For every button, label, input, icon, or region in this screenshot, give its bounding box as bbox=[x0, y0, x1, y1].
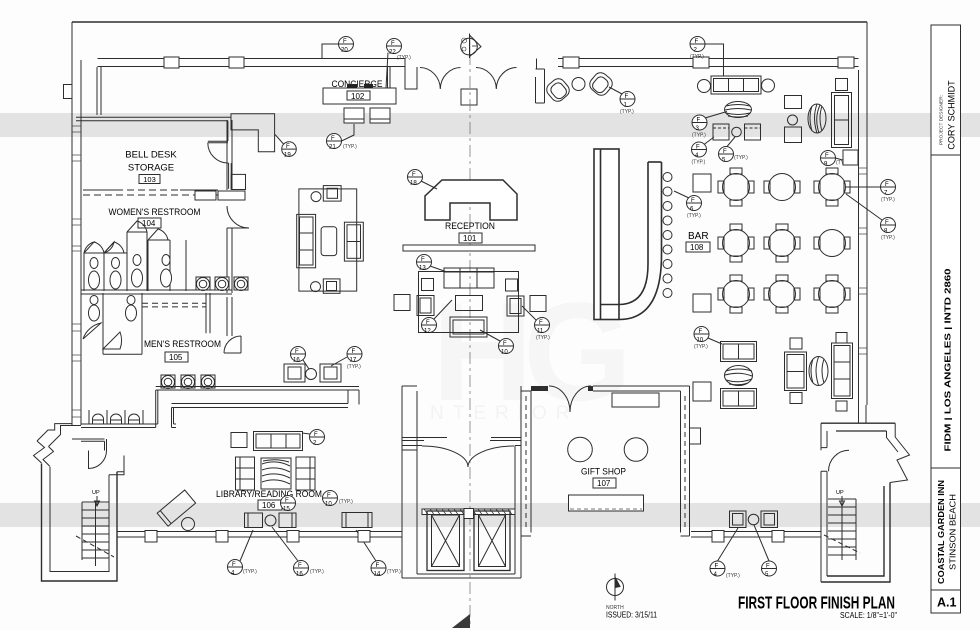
svg-text:(TYP.): (TYP.) bbox=[690, 54, 704, 60]
vestibule center pier bbox=[461, 89, 477, 105]
callout F12 bbox=[422, 300, 453, 335]
svg-text:MEN'S RESTROOM: MEN'S RESTROOM bbox=[144, 339, 221, 350]
svg-text:COASTAL GARDEN INN: COASTAL GARDEN INN bbox=[936, 480, 946, 584]
callout F10 bbox=[480, 330, 514, 356]
svg-text:22: 22 bbox=[389, 49, 396, 56]
svg-text:F: F bbox=[391, 40, 395, 47]
svg-text:12: 12 bbox=[424, 328, 431, 335]
svg-text:F: F bbox=[885, 181, 889, 188]
callout F5 top bbox=[719, 137, 749, 164]
shaft hatch strip bbox=[422, 509, 515, 515]
svg-text:(TYP.): (TYP.) bbox=[692, 160, 706, 166]
elevator 1 bbox=[427, 511, 464, 571]
svg-text:10: 10 bbox=[501, 349, 508, 356]
concierge chairs bbox=[344, 108, 364, 123]
svg-text:A.1: A.1 bbox=[937, 596, 957, 610]
svg-text:F: F bbox=[327, 492, 331, 499]
lobby north inner wall right part bbox=[558, 59, 859, 67]
callout F17 mid bbox=[331, 347, 362, 371]
bar stools bbox=[663, 173, 672, 298]
svg-text:F: F bbox=[298, 562, 302, 569]
lobby door arcs bbox=[422, 446, 514, 467]
svg-text:15: 15 bbox=[283, 506, 290, 513]
top wall with entry bbox=[531, 386, 593, 391]
grey band top bbox=[0, 113, 980, 137]
sinks womens bbox=[196, 277, 248, 291]
svg-text:F: F bbox=[295, 348, 299, 355]
bell desk top wall bbox=[76, 114, 231, 141]
entry door arcs right pair bbox=[476, 68, 517, 90]
left wall pilaster bbox=[64, 85, 73, 99]
concierge number box bbox=[347, 91, 370, 100]
square side tables bar area bbox=[693, 174, 711, 192]
concierge desk bbox=[323, 88, 396, 104]
svg-text:19: 19 bbox=[284, 152, 291, 159]
plant oval 1 bbox=[725, 102, 752, 118]
svg-text:F: F bbox=[412, 171, 416, 178]
north arrow bbox=[607, 574, 624, 601]
svg-text:17: 17 bbox=[350, 357, 357, 364]
svg-text:F: F bbox=[421, 256, 425, 263]
right wall mullion ticks bbox=[859, 168, 868, 354]
svg-text:F: F bbox=[695, 38, 699, 45]
svg-text:102: 102 bbox=[351, 92, 365, 101]
svg-text:20: 20 bbox=[341, 47, 348, 54]
svg-text:(TYP.): (TYP.) bbox=[347, 364, 361, 370]
svg-text:(TYP.): (TYP.) bbox=[536, 335, 550, 341]
sinks mens bbox=[161, 375, 215, 389]
console tables bottom left bbox=[245, 513, 373, 528]
svg-text:BELL DESK: BELL DESK bbox=[125, 150, 177, 161]
callout F16 mid bbox=[291, 347, 310, 370]
svg-text:(TYP.): (TYP.) bbox=[397, 55, 411, 61]
svg-text:(TYP.): (TYP.) bbox=[343, 144, 357, 150]
right console chairs bbox=[730, 511, 778, 528]
storage door stub and leaf bbox=[208, 141, 231, 189]
luggage shelf bbox=[89, 410, 143, 424]
svg-text:NTERIOR: NTERIOR bbox=[430, 403, 579, 424]
svg-text:PROJECT DESIGNER:: PROJECT DESIGNER: bbox=[939, 95, 945, 145]
right section colonnade bbox=[691, 532, 821, 538]
settee top bbox=[698, 76, 775, 94]
callout F3 bbox=[692, 112, 727, 139]
svg-text:BAR: BAR bbox=[688, 231, 709, 242]
center sill box bbox=[464, 509, 474, 519]
callout F18 bbox=[408, 170, 438, 190]
right exterior wall (double) bbox=[859, 22, 868, 405]
mens restroom interior bbox=[83, 293, 142, 354]
callout F1 bbox=[609, 87, 635, 115]
svg-text:101: 101 bbox=[463, 234, 477, 243]
entry door arcs left pair bbox=[420, 68, 461, 90]
cabinet by door bbox=[231, 174, 245, 189]
callout F22 bbox=[386, 39, 411, 89]
svg-text:STORAGE: STORAGE bbox=[128, 163, 174, 174]
mens south wall bbox=[156, 387, 359, 408]
svg-text:WOMEN'S RESTROOM: WOMEN'S RESTROOM bbox=[109, 207, 201, 218]
restroom right wall bbox=[227, 120, 232, 336]
svg-text:(TYP.): (TYP.) bbox=[726, 573, 740, 579]
svg-text:(TYP.): (TYP.) bbox=[243, 569, 257, 575]
svg-text:106: 106 bbox=[262, 501, 276, 510]
entry arcs bbox=[549, 386, 591, 412]
svg-text:105: 105 bbox=[169, 353, 183, 362]
callout F2 bbox=[690, 37, 724, 77]
svg-text:(TYP.): (TYP.) bbox=[687, 213, 701, 219]
protrusion right bbox=[690, 428, 701, 444]
mens door arc bbox=[224, 336, 241, 353]
storage door arc bbox=[208, 143, 229, 163]
svg-text:FIRST FLOOR FINISH PLAN: FIRST FLOOR FINISH PLAN bbox=[738, 593, 895, 613]
svg-text:F: F bbox=[699, 328, 703, 335]
svg-text:ISSUED: 3/15/11: ISSUED: 3/15/11 bbox=[606, 611, 657, 620]
callout F8 bbox=[846, 194, 896, 241]
svg-text:104: 104 bbox=[142, 219, 156, 228]
svg-text:16: 16 bbox=[293, 357, 300, 364]
svg-text:F: F bbox=[426, 319, 430, 326]
left wall mullion ticks bbox=[72, 126, 81, 417]
callout F21 bbox=[327, 124, 358, 151]
svg-text:16: 16 bbox=[296, 571, 303, 578]
callout F7 bbox=[846, 180, 896, 204]
callout F4 top bbox=[692, 137, 715, 166]
svg-text:(TYP.): (TYP.) bbox=[339, 499, 353, 505]
closet casework bbox=[231, 114, 275, 152]
callout F11 bbox=[522, 306, 550, 341]
callouts bottom F4 F16 F14 bbox=[228, 530, 258, 577]
callout F20 bbox=[322, 37, 354, 59]
svg-text:(TYP.): (TYP.) bbox=[734, 155, 748, 161]
svg-text:UP: UP bbox=[836, 490, 844, 496]
svg-text:10: 10 bbox=[325, 501, 332, 508]
cabinets under dashed wall bbox=[195, 191, 216, 200]
svg-text:F: F bbox=[696, 144, 700, 151]
svg-text:108: 108 bbox=[690, 243, 704, 252]
callout F2 lib bbox=[302, 430, 325, 447]
svg-text:103: 103 bbox=[143, 175, 156, 184]
svg-text:LIBRARY/READING ROOM: LIBRARY/READING ROOM bbox=[216, 489, 322, 499]
svg-text:13: 13 bbox=[419, 265, 426, 272]
womens door arc bbox=[227, 206, 249, 228]
svg-text:107: 107 bbox=[597, 479, 611, 488]
svg-text:F: F bbox=[286, 143, 290, 150]
svg-text:F: F bbox=[232, 561, 236, 568]
svg-text:(TYP.): (TYP.) bbox=[881, 197, 895, 203]
svg-text:SCALE: 1/8"=1'-0": SCALE: 1/8"=1'-0" bbox=[840, 611, 897, 620]
elevator 2 bbox=[474, 511, 510, 571]
lobby north inner wall left part bbox=[98, 59, 406, 67]
svg-text:(TYP.): (TYP.) bbox=[694, 344, 708, 350]
callout F10 lib bbox=[323, 491, 354, 508]
svg-text:NORTH: NORTH bbox=[606, 605, 624, 611]
svg-text:F: F bbox=[625, 93, 629, 100]
grey band bottom bbox=[0, 503, 980, 527]
left section colonnade bbox=[117, 532, 402, 538]
svg-text:F: F bbox=[285, 497, 289, 504]
callout F15 bbox=[281, 496, 296, 513]
svg-text:10: 10 bbox=[697, 337, 704, 344]
angled chairs at entry right bbox=[544, 70, 615, 104]
svg-text:GIFT SHOP: GIFT SHOP bbox=[581, 467, 626, 477]
wall between restrooms bbox=[81, 290, 232, 294]
svg-text:F: F bbox=[691, 197, 695, 204]
svg-text:(TYP.): (TYP.) bbox=[310, 569, 324, 575]
callout F6 bbox=[674, 191, 702, 219]
svg-text:F: F bbox=[331, 135, 335, 142]
svg-text:F: F bbox=[885, 219, 889, 226]
callout F10 lower bbox=[694, 327, 722, 351]
concierge back wall bbox=[97, 67, 101, 115]
toilet stalls womens bbox=[84, 221, 186, 291]
svg-text:F: F bbox=[352, 348, 356, 355]
stairs bbox=[828, 499, 856, 560]
svg-text:F: F bbox=[825, 152, 829, 159]
top exterior wall bbox=[72, 21, 867, 23]
stairs bbox=[82, 502, 109, 566]
svg-text:F: F bbox=[715, 563, 719, 570]
svg-text:(TYP.): (TYP.) bbox=[692, 133, 706, 139]
section arrow bottom bbox=[452, 614, 470, 628]
right wall lounge: squares and sofa bbox=[785, 79, 852, 148]
partition behind concierge desk bbox=[388, 67, 391, 88]
gift shop furniture bbox=[612, 393, 659, 407]
svg-text:14: 14 bbox=[374, 571, 381, 578]
dashed bulkhead wall above womens bbox=[83, 190, 218, 195]
svg-text:(TYP.): (TYP.) bbox=[387, 569, 401, 575]
vestibule left jamb bbox=[405, 59, 417, 90]
svg-text:F: F bbox=[539, 319, 543, 326]
svg-text:F: F bbox=[343, 38, 347, 45]
svg-text:F: F bbox=[723, 148, 727, 155]
svg-text:CORY SCHMIDT: CORY SCHMIDT bbox=[947, 80, 957, 150]
svg-text:FIDM | LOS ANGELES | INTD 2860: FIDM | LOS ANGELES | INTD 2860 bbox=[943, 268, 953, 451]
chairs pair with table bbox=[713, 124, 761, 140]
svg-text:11: 11 bbox=[537, 328, 544, 335]
F16 chairs pair lower bbox=[284, 364, 341, 382]
callout F9 bbox=[821, 151, 851, 168]
section centerline bbox=[469, 53, 471, 628]
bottom bbox=[521, 535, 690, 537]
left exterior wall (double) bbox=[72, 22, 81, 425]
left cavity wall bbox=[521, 386, 531, 536]
svg-text:F: F bbox=[314, 431, 318, 438]
callout F13 bbox=[417, 255, 448, 273]
svg-text:(TYP.): (TYP.) bbox=[881, 235, 895, 241]
watermark logo bbox=[430, 273, 624, 430]
svg-text:UP: UP bbox=[92, 490, 100, 496]
angled bench bbox=[157, 490, 196, 530]
right cavity wall bbox=[681, 386, 690, 536]
svg-text:F: F bbox=[697, 117, 701, 124]
elevation marker diamond bbox=[461, 34, 481, 59]
toilets womens bbox=[89, 255, 172, 290]
svg-text:21: 21 bbox=[329, 144, 336, 151]
svg-text:F: F bbox=[376, 562, 380, 569]
callout F19 bbox=[275, 134, 296, 158]
svg-text:F: F bbox=[503, 340, 507, 347]
wall piers top bbox=[164, 57, 179, 68]
svg-text:F: F bbox=[766, 563, 770, 570]
svg-text:STINSON BEACH: STINSON BEACH bbox=[949, 494, 958, 570]
reception counter bbox=[403, 245, 535, 251]
vestibule right jamb bbox=[536, 59, 545, 104]
reception desk bbox=[425, 180, 517, 220]
svg-text:(TYP.): (TYP.) bbox=[620, 109, 634, 115]
svg-text:RECEPTION: RECEPTION bbox=[445, 221, 495, 231]
svg-text:18: 18 bbox=[410, 180, 417, 187]
